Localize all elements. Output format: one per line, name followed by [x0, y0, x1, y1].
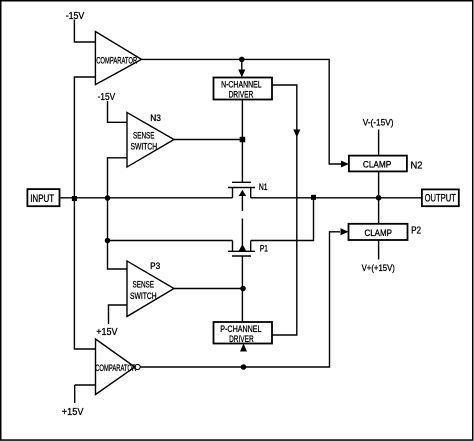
- svg-text:COMPARATOR: COMPARATOR: [96, 55, 137, 66]
- svg-text:N-CHANNEL: N-CHANNEL: [221, 79, 262, 89]
- svg-text:P2: P2: [411, 225, 421, 237]
- svg-text:CLAMP: CLAMP: [365, 228, 392, 239]
- svg-text:SENSE: SENSE: [133, 279, 155, 289]
- svg-text:V+(+15V): V+(+15V): [362, 263, 395, 274]
- svg-text:-15V: -15V: [98, 91, 116, 103]
- svg-text:V-(-15V): V-(-15V): [363, 118, 394, 129]
- svg-text:SENSE: SENSE: [133, 130, 155, 140]
- svg-text:P-CHANNEL: P-CHANNEL: [220, 324, 261, 334]
- svg-text:COMPARATOR: COMPARATOR: [95, 363, 136, 374]
- svg-text:N1: N1: [259, 182, 268, 192]
- svg-text:P3: P3: [150, 261, 160, 271]
- svg-text:SWITCH: SWITCH: [130, 291, 157, 301]
- svg-text:N2: N2: [411, 159, 423, 171]
- svg-text:-15V: -15V: [66, 10, 85, 22]
- svg-text:OUTPUT: OUTPUT: [425, 193, 456, 205]
- svg-text:CLAMP: CLAMP: [363, 160, 391, 171]
- svg-text:+15V: +15V: [96, 326, 117, 338]
- svg-text:DRIVER: DRIVER: [229, 334, 254, 344]
- svg-text:INPUT: INPUT: [30, 193, 54, 205]
- svg-text:N3: N3: [150, 113, 161, 123]
- svg-text:P1: P1: [260, 244, 268, 254]
- svg-text:DRIVER: DRIVER: [229, 89, 254, 99]
- svg-text:SWITCH: SWITCH: [131, 142, 158, 152]
- svg-text:+15V: +15V: [62, 406, 84, 418]
